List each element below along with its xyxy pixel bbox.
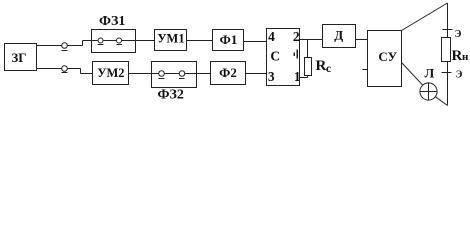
- svg-text:R: R: [452, 48, 463, 64]
- svg-text:с: с: [326, 63, 331, 75]
- svg-text:Э: Э: [455, 29, 462, 40]
- svg-text:УМ1: УМ1: [157, 32, 184, 46]
- svg-text:Ф1: Ф1: [220, 32, 238, 47]
- svg-text:2: 2: [293, 29, 300, 44]
- svg-text:С: С: [270, 49, 280, 64]
- svg-text:УМ2: УМ2: [97, 66, 124, 80]
- svg-text:ФЗ1: ФЗ1: [99, 14, 125, 29]
- svg-text:3: 3: [268, 69, 275, 84]
- svg-text:R: R: [316, 58, 327, 74]
- svg-text:4: 4: [268, 29, 275, 44]
- svg-text:Л: Л: [424, 65, 434, 80]
- svg-text:Ф2: Ф2: [219, 65, 237, 80]
- svg-text:ФЗ2: ФЗ2: [157, 88, 183, 103]
- svg-text:1: 1: [294, 69, 301, 84]
- svg-text:Д: Д: [334, 28, 343, 43]
- svg-text:н: н: [462, 51, 469, 63]
- svg-text:Э: Э: [456, 70, 463, 81]
- svg-text:СУ: СУ: [378, 49, 397, 64]
- svg-text:ЗГ: ЗГ: [11, 50, 26, 65]
